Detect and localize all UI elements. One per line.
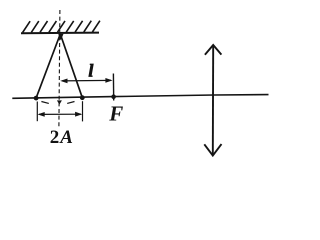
pendulum string left extreme bbox=[36, 34, 60, 98]
dimension arrow l bbox=[62, 79, 111, 82]
lens bottom arrowhead bbox=[204, 144, 221, 156]
focus point dot bbox=[111, 94, 116, 99]
dimension arrow 2A bbox=[39, 113, 81, 115]
ceiling support line bbox=[21, 32, 99, 35]
extension line left bbox=[36, 102, 38, 122]
svg-text:l: l bbox=[88, 61, 93, 81]
extension line right bbox=[82, 101, 84, 121]
svg-text:2A: 2A bbox=[50, 127, 73, 148]
bob right dot bbox=[80, 95, 85, 100]
tick above F bbox=[112, 74, 114, 101]
lens shaft bbox=[212, 45, 214, 155]
ceiling hatching bbox=[23, 21, 100, 33]
swing arc down arrowhead bbox=[57, 100, 62, 104]
svg-text:F: F bbox=[108, 102, 123, 126]
pivot knot bbox=[58, 34, 63, 40]
optical axis bbox=[12, 95, 268, 99]
lens top arrowhead bbox=[205, 45, 222, 55]
dashed equilibrium centerline bbox=[59, 10, 60, 127]
bob left dot bbox=[34, 96, 39, 101]
pendulum string right extreme bbox=[60, 34, 82, 98]
swing arc dashes bbox=[41, 102, 48, 104]
